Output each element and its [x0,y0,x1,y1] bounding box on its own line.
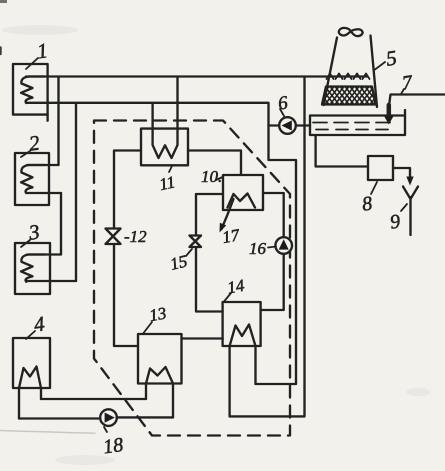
svg-text:8: 8 [361,193,374,216]
riser v3 (hx2 bottom to hx3 top) [60,193,62,255]
return header pipe2 with drop to pump 6 and down to condenser [26,103,296,384]
heat exchanger 2 bottom pipe [27,192,61,194]
supply header pipe1 [26,75,367,77]
valve 12 [106,229,121,245]
wire generator 10 right to pump 16 to hx14 right [261,193,284,310]
paper crease [0,431,95,434]
svg-text:14: 14 [226,276,247,298]
wire pump 18 to absorber 13 right leg [117,416,173,418]
drain funnel 9 [403,187,418,236]
condenser 14 (box) [223,302,261,346]
riser v2 (pipe2 to hx3 bottom) [75,103,77,281]
generator 10 coil [228,194,256,208]
pump 16 [275,237,292,254]
heat exchanger 4 (box) [13,338,50,388]
cooling tower 5 left slant [324,38,338,106]
heat exchanger 3 bottom pipe [27,280,76,282]
svg-text:4: 4 [32,311,46,336]
svg-text:5: 5 [385,45,399,70]
heat exchanger 2 coil [21,165,45,193]
wire hx4 right leg to absorber 13 left leg [41,398,146,400]
basin [310,110,405,135]
heat exchanger 1 (box) [13,64,48,115]
wire evaporator 11 left to valve 12 to hx13 [114,151,141,347]
wire absorber 13 to condenser 14 [182,337,223,339]
heat exchanger 2 (box) [15,153,49,205]
spray nozzles [327,74,370,80]
wire basin outlet to filter 8 [316,135,368,167]
evaporator 11 (box) [141,129,188,166]
svg-text:10.: 10. [201,167,222,186]
svg-text:11: 11 [157,172,176,194]
svg-text:9: 9 [389,211,402,234]
dashed unit boundary [94,121,290,436]
heat exchanger 3 top pipe [27,253,61,255]
tower fill (hatched band) [322,87,376,105]
riser v1 (pipe1 to hx2 top) [57,77,59,165]
wire generator 10 left to valve 15 to hx14 [196,194,223,312]
edge mark [0,48,2,55]
fan [339,28,363,36]
heat exchanger 1 right-edge stub [46,115,48,121]
pump 6 discharge to basin [296,124,310,126]
valve 15 [190,236,202,248]
heat exchanger 4 coil with legs [19,367,41,419]
svg-text:6: 6 [277,92,290,114]
condenser 14 coil with legs [230,325,256,417]
heat exchanger 3 coil [21,255,45,282]
absorber 13 (box) [138,334,182,384]
cooling tower 5 right slant [371,36,378,108]
heat exchanger 1 coil [21,77,44,104]
heat exchanger 2 top pipe [27,164,59,166]
svg-text:17: 17 [221,225,243,247]
makeup water line 7 [389,95,445,107]
pump 6 [279,117,296,134]
filter 8 (box) [368,156,393,180]
wire hx4 left leg to pump 18 [19,417,100,419]
svg-text:13: 13 [148,304,168,326]
wire evaporator 11 right to generator 10 top [188,151,241,176]
heat exchanger 3 (box) [15,243,50,294]
svg-text:16: 16 [249,239,267,258]
svg-text:18: 18 [102,434,125,459]
downcomer v_b (pipe1 to condenser left leg) [230,77,305,416]
pump 6 suction tee [269,124,280,126]
pump 18 [100,409,117,426]
evaporator 11 coil pipes and W [153,78,178,159]
heat input arrow 17 [222,199,234,229]
svg-text:1: 1 [36,38,50,63]
absorber 13 coil with legs [146,367,173,417]
basin water level [313,122,397,124]
wire filter 8 to drain 9 [393,168,410,177]
svg-text:-12: -12 [124,227,147,246]
generator 10 (box) [223,175,263,210]
